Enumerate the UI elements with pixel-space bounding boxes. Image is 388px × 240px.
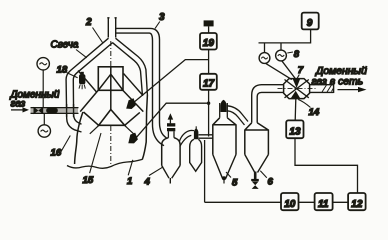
svg-text:5: 5 [232,178,238,189]
svg-text:1: 1 [127,176,132,187]
vent symbol above box 19 [204,20,214,26]
wire from control line down to bottom bus [204,140,206,202]
box 11 [315,193,333,210]
leader for label 3 [155,22,160,29]
svg-text:газ: газ [11,98,26,109]
leader dash for label 8 [287,52,293,53]
box 10 [281,193,299,210]
connector pipe 5 to 6 [227,106,248,125]
svg-text:газ в сеть: газ в сеть [312,76,364,87]
wires from sensors down to mixer [266,61,297,81]
right shoulder line of furnace dome [124,74,143,96]
funnel lip right to big bell seat [125,112,140,125]
box 17 [200,74,217,90]
leader for label 16 [61,136,71,153]
instrument circle (bottom left) [38,125,50,137]
svg-text:17: 17 [203,79,215,90]
big bell rod [110,67,112,110]
instrument circle (top left, pressure sensor) [37,58,49,70]
leader for label 5 [226,172,231,178]
box 12 [348,193,366,210]
leader for label 1 [128,160,133,176]
wire 19 to 17 [208,50,210,74]
wires from sensors up to line from box 9 [265,43,282,53]
wire from sensor to inlet pipe [42,70,44,107]
inlet flange (black) [46,108,58,113]
funnel wall right [123,91,143,112]
pipe 2: right gas uptake from apex merging into right wall [112,38,147,96]
svg-text:11: 11 [318,199,329,210]
leader for label 2 [93,28,103,43]
bottom bus wire [205,201,349,203]
svg-text:14: 14 [309,107,320,118]
inlet pipe to scrubber 5 [199,135,213,138]
wire box 13 down and right to box 12 [295,138,358,193]
leader for label 7 [297,75,299,79]
vent hatches under valve 18 [79,85,85,90]
probe line 2 into furnace [134,103,208,140]
svg-text:13: 13 [289,127,301,138]
svg-text:6: 6 [268,177,274,188]
valve 18 (bleeder valve, black) on left uptake [79,72,85,84]
scrubber 5: body [213,118,236,155]
furnace left wall [75,112,83,164]
box 9 [302,13,319,30]
connector pipe 4 to seal pot [179,130,194,146]
cyclone 6: body [245,123,269,155]
wire from box 9 to sensors [259,30,311,43]
svg-text:4: 4 [144,177,151,188]
dust catcher 4: neck cap [167,123,175,126]
dust catcher 4: neck [168,131,174,137]
wire from bottom sensor to inlet pipe [43,114,45,125]
dust catcher 4: cone bottom [162,166,180,184]
inlet shut-off valve (black bowtie) [34,107,44,114]
furnace right wall [142,95,147,159]
svg-text:2: 2 [85,17,92,28]
inlet pipe (grey) [31,108,79,113]
svg-text:10: 10 [284,199,296,210]
pipe 2: left gas uptake from apex to elbow and riser down [66,38,113,132]
big bell 15 (triangle) [99,110,125,126]
svg-text:Свеча: Свеча [51,40,79,51]
svg-text:12: 12 [351,199,363,210]
dust catcher 4: body [162,138,180,166]
probe arrowhead 2 (thick) [128,133,138,144]
inlet flow arrow [11,109,26,111]
svg-text:7: 7 [298,65,304,76]
small bell (cone) inside hopper [99,74,123,90]
scrubber 5: cone [213,155,236,179]
wire: centerline of furnace (dash-dot) [110,41,112,67]
svg-text:19: 19 [203,38,215,49]
leader for label 6 [260,171,267,178]
funnel wall left (hopper to furnace wall) [80,91,98,112]
cyclone 6: cone [245,155,269,173]
wire below box 17 [208,90,210,137]
pipe 3: horizontal from candle to downcomer elbow [116,28,160,44]
leader for label Свеча [76,50,87,58]
furnace top square hopper [98,67,123,91]
outlet pipe to network with hatched end [310,84,334,93]
pressure sensors 8 (two circles) [259,53,270,64]
riser pipe lines redrawn over inlet pipe crossing [67,104,74,117]
svg-text:8: 8 [294,49,300,60]
svg-text:16: 16 [51,148,62,159]
box 13 [286,120,303,138]
throttle group 7 (mixer body) [278,79,316,99]
svg-text:9: 9 [307,18,313,29]
seal pot (small vessel) [195,126,197,129]
centerline below bell (dash-dot) [110,126,112,167]
leader for label 4 [149,167,163,176]
svg-text:15: 15 [83,175,94,186]
charge trajectory stubs below bell [90,126,134,134]
candle (bleeder) pipe at furnace apex [107,18,116,38]
scrubber 5: neck with dark cap [220,103,228,118]
svg-text:Доменный: Доменный [315,66,367,77]
pipe 3: downcomer vertical and curve into dust catcher 4 [153,44,167,146]
dust catcher 4: top arrow [169,119,171,124]
junction node [207,102,210,105]
wire mixer to box 13 [294,99,297,121]
left shoulder line of furnace dome [78,71,97,93]
leader for label 14 [298,100,310,108]
furnace bottom break (wavy) [67,159,143,168]
cyclone 6: bottom valve (bowtie) [254,172,257,180]
network flow arrow [338,89,362,91]
probe line 1 from control line into furnace [133,60,209,103]
leader for label 15 [90,133,101,173]
svg-text:3: 3 [159,12,165,23]
box 19 [200,33,217,50]
funnel lip left to big bell seat [84,112,99,125]
svg-text:18: 18 [57,65,68,76]
probe arrowhead 1 (thick) [126,98,136,109]
leader for label 18 [67,73,78,78]
cyclone 6: riser pipe up to mixer elbow [252,85,284,123]
